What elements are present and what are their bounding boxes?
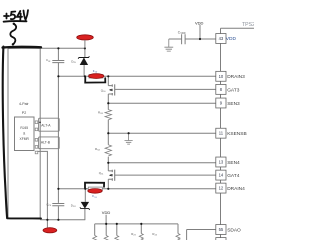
svg-text:KSENSB: KSENSB bbox=[227, 131, 246, 137]
svg-text:10: 10 bbox=[219, 74, 224, 79]
svg-text:SEN3: SEN3 bbox=[227, 101, 240, 107]
svg-text:VDD: VDD bbox=[226, 36, 237, 42]
svg-text:SDAO: SDAO bbox=[227, 227, 241, 233]
svg-text:14: 14 bbox=[219, 173, 224, 178]
svg-text:SEN4: SEN4 bbox=[227, 160, 240, 166]
svg-text:DRAIN3: DRAIN3 bbox=[227, 74, 245, 80]
svg-text:VDD: VDD bbox=[195, 20, 204, 25]
svg-text:VDD: VDD bbox=[180, 32, 185, 35]
svg-text:55: 55 bbox=[219, 227, 224, 232]
svg-text:ALT-B: ALT-B bbox=[41, 140, 51, 144]
svg-text:43: 43 bbox=[219, 36, 224, 41]
svg-text:XFMR: XFMR bbox=[20, 137, 30, 141]
svg-text:P2: P2 bbox=[22, 111, 26, 115]
svg-text:13: 13 bbox=[219, 160, 224, 165]
svg-text:4-Pair: 4-Pair bbox=[19, 102, 29, 106]
svg-text:GAT4: GAT4 bbox=[227, 173, 240, 179]
svg-text:GAT3: GAT3 bbox=[227, 87, 240, 93]
svg-text:11: 11 bbox=[219, 131, 224, 136]
svg-text:12: 12 bbox=[219, 186, 224, 191]
svg-text:RJ45: RJ45 bbox=[20, 126, 28, 130]
svg-text:VDD: VDD bbox=[102, 210, 111, 215]
svg-text:DRAIN4: DRAIN4 bbox=[227, 186, 245, 192]
svg-text:ALT-A: ALT-A bbox=[41, 123, 51, 127]
svg-text:TPS238: TPS238 bbox=[242, 22, 254, 28]
